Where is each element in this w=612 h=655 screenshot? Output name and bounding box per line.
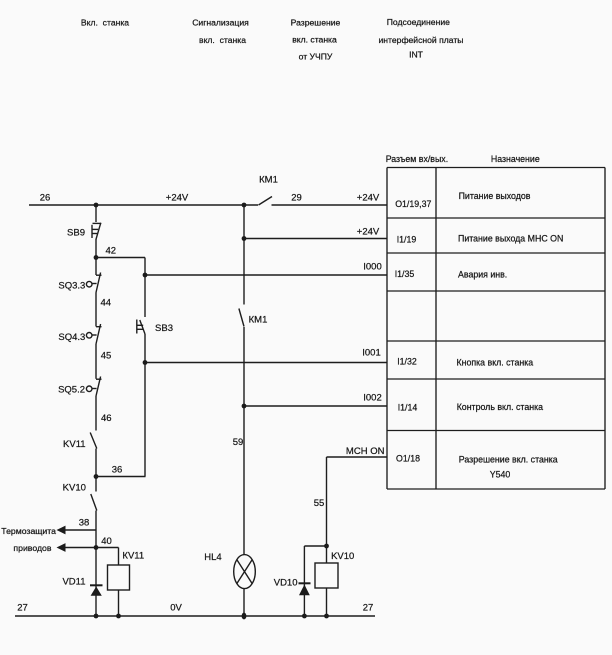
node rail/VD10 [302,614,307,619]
svg-text:Разрешение: Разрешение [291,17,341,27]
node 36 [94,474,99,479]
svg-text:+24V: +24V [357,193,380,204]
junction dots [94,203,329,620]
node rail/KV10 coil [324,614,329,619]
wire VD10 stub [304,545,326,547]
svg-text:SQ3.3: SQ3.3 [58,281,85,292]
wire SQ3.3 to SQ4.3 [95,293,97,327]
wire node 38 to thermal protection arrow [65,529,97,531]
limit switch contact SQ5.2 [86,377,101,397]
svg-text:SQ5.2: SQ5.2 [58,385,85,396]
pushbutton SB3 (NO) [137,320,145,335]
wire MCH ON row [327,456,388,458]
svg-text:KV11: KV11 [63,439,86,450]
svg-text:26: 26 [40,193,51,204]
wire MCH ON drop to KV10 coil [326,457,328,563]
svg-text:вкл. станка: вкл. станка [199,35,246,45]
svg-text:40: 40 [101,536,112,547]
svg-text:I1/14: I1/14 [398,403,418,413]
wire bottom rail 0V [15,615,375,617]
wire node 42 to SB3 branch [144,258,146,318]
relay contact KV11 (NO) [90,433,97,449]
wire KV11 contact to KV10 contact [95,449,97,492]
svg-text:Контроль вкл. станка: Контроль вкл. станка [457,402,543,412]
wire KV11 coil drop [118,548,120,566]
svg-text:0V: 0V [170,603,182,614]
node rail/SB9 [94,203,99,208]
node +24V row junction [242,236,247,241]
node I002 junction [242,404,247,409]
wire KV10 coil to rail [326,588,328,616]
node rail/KV11 coil [116,614,121,619]
svg-text:38: 38 [79,518,90,529]
wire SB3 to node 36 [144,334,146,477]
diode VD11 [90,584,103,596]
svg-text:45: 45 [101,351,112,362]
svg-text:HL4: HL4 [204,552,221,563]
node 42 [94,255,99,260]
node I001 junction [143,360,148,365]
svg-text:Разрешение вкл. станка: Разрешение вкл. станка [459,455,558,465]
svg-text:I1/19: I1/19 [397,235,417,245]
svg-text:Термозащита: Термозащита [1,526,56,536]
relay coil KV10 [315,563,338,588]
contactor contact KM1 (top rail, NO) [259,197,273,206]
contactor contact KM1 (vertical, NO) [239,309,244,327]
svg-text:55: 55 [314,498,325,509]
svg-text:I000: I000 [363,262,382,273]
svg-text:Питание выходов: Питание выходов [459,191,531,201]
wire top rail +24V left segment [29,204,258,206]
svg-text:I1/35: I1/35 [395,269,415,279]
svg-text:SQ4.3: SQ4.3 [58,332,85,343]
pushbutton SB9 (NC) [92,223,101,240]
lamp HL4 [234,555,256,589]
svg-text:I1/32: I1/32 [397,357,417,367]
interface table INT [387,168,605,490]
wire VD10 branch [303,546,305,616]
svg-text:27: 27 [17,603,28,614]
svg-text:KV10: KV10 [331,551,354,562]
svg-text:I002: I002 [363,393,382,404]
node rail/VD11 [94,614,99,619]
svg-text:SB9: SB9 [67,228,85,239]
wire KV11 coil to rail [118,590,120,616]
svg-text:Авария инв.: Авария инв. [458,270,507,280]
wire KM1 contact to lamp HL4 [243,327,245,555]
svg-text:27: 27 [363,603,374,614]
svg-text:Y540: Y540 [490,470,511,480]
svg-text:INT: INT [409,50,424,60]
node 40 [94,545,99,550]
svg-text:KV10: KV10 [63,483,86,494]
svg-text:от УЧПУ: от УЧПУ [299,51,333,61]
svg-text:Назначение: Назначение [491,154,540,164]
node rail/HL4 [242,613,247,620]
wire I000 row [145,274,387,276]
svg-text:Вкл. станка: Вкл. станка [81,18,129,28]
wire rail to SB9 [95,205,97,222]
svg-text:О1/19,37: О1/19,37 [395,199,431,209]
limit switch contact SQ4.3 [86,324,101,344]
wire node 36 horizontal [96,476,146,478]
wire +24V row to I1/19 [244,238,387,240]
svg-text:+24V: +24V [357,226,380,237]
svg-text:MCH ON: MCH ON [346,446,385,457]
wire KV10 contact down through node 38 and 40 to VD11 [95,511,97,617]
relay contact KV10 (NO) [91,494,97,511]
svg-text:+24V: +24V [166,193,189,204]
svg-text:46: 46 [101,413,112,424]
svg-text:интерфейсной платы: интерфейсной платы [379,35,464,45]
wire lamp to rail [243,588,245,616]
svg-text:Питание выхода MHC ON: Питание выхода MHC ON [458,234,563,244]
svg-text:VD10: VD10 [274,578,298,589]
limit switch contact SQ3.3 [86,273,101,293]
svg-text:SB3: SB3 [155,323,173,334]
node I000 junction [143,273,148,278]
svg-text:Разъем вх/вых.: Разъем вх/вых. [386,154,448,164]
wire rail to KM1 contact [243,205,245,305]
svg-text:Подсоединение: Подсоединение [387,17,450,27]
svg-text:I001: I001 [362,348,381,359]
svg-text:Кнопка вкл. станка: Кнопка вкл. станка [457,358,534,368]
wire SB9 to SQ3.3 [95,239,97,275]
arrow to thermal protection (node 38) [57,526,66,535]
svg-text:29: 29 [291,193,302,204]
wire node 42 horizontal [96,257,145,259]
svg-text:приводов: приводов [13,543,51,553]
relay coil KV11 [108,565,130,590]
svg-text:VD11: VD11 [62,577,85,588]
wire I002 row [244,405,387,407]
svg-text:59: 59 [233,437,244,448]
svg-text:Сигнализация: Сигнализация [192,18,249,28]
diode VD10 [299,582,311,595]
wire SQ5.2 to KV11 contact [95,396,97,431]
wire I001 row [145,362,387,364]
node rail/KM1 branch [242,203,247,208]
svg-text:44: 44 [101,298,112,309]
arrow to thermal protection (node 40) [57,543,66,552]
svg-text:42: 42 [106,246,117,257]
wire SQ4.3 to SQ5.2 [95,344,97,379]
svg-text:КМ1: КМ1 [249,315,268,326]
svg-text:О1/18: О1/18 [396,454,420,464]
svg-text:КМ1: КМ1 [259,175,278,186]
svg-text:КV11: КV11 [122,551,144,562]
wire top rail right segment to table [272,204,388,206]
node VD10 stub junction [324,544,329,549]
svg-text:36: 36 [112,465,123,476]
wire node 40 horizontal [65,547,119,549]
svg-text:вкл. станка: вкл. станка [292,35,337,45]
